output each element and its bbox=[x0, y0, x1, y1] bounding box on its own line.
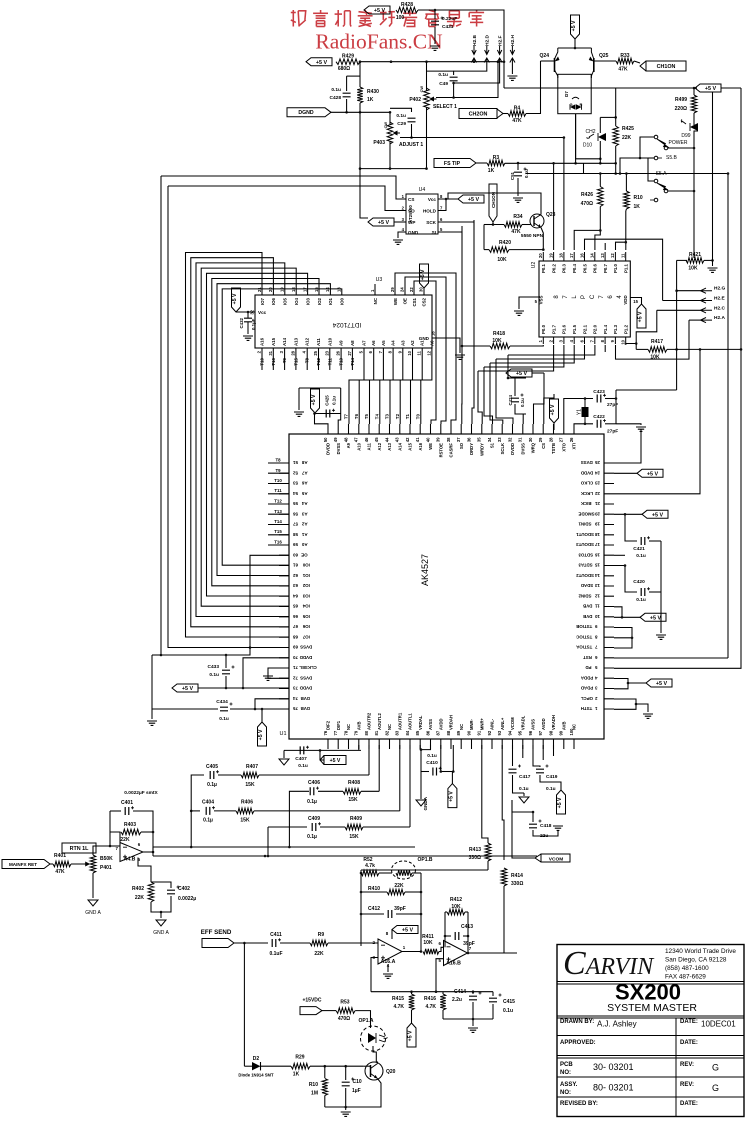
wire U2 P1.4 stub bbox=[604, 345, 606, 352]
wire bbox=[463, 935, 468, 937]
capacitor C428 bbox=[343, 93, 351, 97]
wire bbox=[345, 1107, 347, 1110]
svg-text:DATE:: DATE: bbox=[680, 1040, 698, 1046]
svg-text:DVDD: DVDD bbox=[510, 443, 515, 455]
wire H2.D bbox=[454, 62, 487, 71]
wire bbox=[523, 793, 525, 796]
svg-text:P0.2: P0.2 bbox=[551, 263, 556, 273]
svg-text:13: 13 bbox=[600, 253, 605, 258]
svg-text:AVDD: AVDD bbox=[541, 718, 546, 730]
svg-text:NC: NC bbox=[373, 297, 378, 304]
svg-text:CH2ON: CH2ON bbox=[469, 112, 488, 118]
wire fb right bbox=[420, 873, 422, 952]
svg-text:5550 NPN: 5550 NPN bbox=[521, 233, 544, 239]
svg-text:+15VDC: +15VDC bbox=[302, 998, 321, 1004]
ground at C414 bbox=[468, 1028, 478, 1032]
svg-text:+5 V: +5 V bbox=[448, 791, 454, 802]
svg-text:SO: SO bbox=[459, 442, 464, 449]
wire U4 CS left bbox=[161, 176, 406, 199]
svg-text:R430: R430 bbox=[367, 89, 379, 95]
svg-text:0.1u: 0.1u bbox=[331, 87, 341, 93]
svg-text:A2: A2 bbox=[410, 340, 415, 346]
capacitor C415 bbox=[489, 998, 497, 1002]
svg-text:T13: T13 bbox=[274, 509, 282, 514]
svg-text:SDOUT3: SDOUT3 bbox=[576, 542, 594, 547]
wire bbox=[359, 62, 361, 87]
svg-text:42: 42 bbox=[405, 437, 410, 442]
wire to right bus bbox=[616, 389, 677, 391]
svg-text:A8: A8 bbox=[301, 460, 307, 465]
svg-text:PD: PD bbox=[585, 665, 591, 670]
wire bbox=[141, 831, 153, 833]
wire to U1 DVB pin75 bbox=[230, 708, 289, 710]
wire U4 WP bbox=[394, 221, 406, 223]
resistor R410 bbox=[387, 889, 405, 895]
svg-text:10K: 10K bbox=[688, 266, 698, 272]
U3 address pin stub bbox=[340, 348, 342, 370]
+5V flag U1 pin24 bbox=[637, 469, 663, 477]
wire bbox=[152, 654, 161, 656]
svg-text:RadioFans.CN: RadioFans.CN bbox=[315, 30, 443, 54]
svg-text:A15: A15 bbox=[271, 337, 276, 346]
svg-text:R410: R410 bbox=[368, 886, 380, 892]
capacitor C409 bbox=[312, 823, 316, 831]
svg-text:C425: C425 bbox=[325, 395, 330, 406]
svg-text:55: 55 bbox=[293, 501, 298, 506]
svg-text:H2.C: H2.C bbox=[714, 305, 725, 311]
svg-text:DVDD: DVDD bbox=[581, 470, 593, 475]
wire U1 PD bbox=[614, 349, 741, 668]
svg-text:CH1ON: CH1ON bbox=[491, 191, 496, 208]
svg-text:SDOUT1: SDOUT1 bbox=[576, 532, 594, 537]
wire C29 top bbox=[390, 108, 412, 112]
wire U3 A7 to U1 bbox=[349, 348, 364, 424]
svg-text:PDDA: PDDA bbox=[580, 676, 593, 681]
wire bbox=[693, 88, 695, 95]
svg-text:VCOM: VCOM bbox=[510, 717, 515, 730]
resistor R9 bbox=[310, 940, 328, 946]
ground U1 pin1/2 bbox=[643, 714, 653, 718]
svg-text:R9: R9 bbox=[318, 932, 325, 938]
svg-text:GND A: GND A bbox=[85, 910, 101, 916]
svg-text:4: 4 bbox=[302, 350, 307, 353]
svg-text:REV:: REV: bbox=[680, 1062, 694, 1068]
wire U2 P0.3 to ADJUST1 bbox=[563, 138, 565, 251]
wire bbox=[324, 1096, 326, 1108]
svg-text:17: 17 bbox=[569, 253, 574, 258]
svg-text:7: 7 bbox=[563, 295, 569, 299]
wire S5.B left bbox=[640, 137, 654, 158]
svg-text:C411: C411 bbox=[270, 932, 282, 938]
capacitor C433 bbox=[222, 670, 230, 674]
svg-text:R415: R415 bbox=[392, 996, 404, 1002]
svg-text:17: 17 bbox=[594, 542, 599, 547]
capacitor C402 bbox=[167, 890, 175, 894]
svg-text:A10: A10 bbox=[356, 442, 361, 450]
svg-text:30: 30 bbox=[528, 437, 533, 442]
wire bbox=[636, 348, 648, 350]
wire U1 WRQ bbox=[534, 373, 545, 424]
svg-text:5: 5 bbox=[594, 665, 597, 670]
svg-text:6: 6 bbox=[579, 339, 584, 342]
svg-text:27pF: 27pF bbox=[607, 429, 618, 435]
wire H2.E row bbox=[663, 300, 701, 302]
resistor R413 bbox=[485, 843, 491, 861]
wire bbox=[712, 260, 714, 266]
LED D10 bbox=[598, 133, 606, 141]
wire S5.B to rail bbox=[668, 147, 694, 149]
wire A16.B out bbox=[468, 952, 518, 954]
ground at C431 bbox=[430, 46, 440, 50]
wire bbox=[677, 259, 687, 261]
wire U1 RST bbox=[614, 657, 728, 659]
svg-text:C: C bbox=[590, 294, 596, 299]
wire U1 MNR+ down bbox=[482, 745, 488, 843]
wire bbox=[512, 745, 514, 766]
svg-text:0.1u: 0.1u bbox=[503, 1008, 513, 1014]
wire U2 P1.6 bbox=[484, 345, 564, 367]
svg-text:RSTOE: RSTOE bbox=[438, 443, 443, 458]
net stub T10 bbox=[268, 483, 289, 485]
svg-text:470Ω: 470Ω bbox=[581, 201, 593, 207]
svg-text:P402: P402 bbox=[409, 97, 421, 103]
+5V flag R415 bbox=[407, 1023, 416, 1047]
wire bbox=[389, 112, 391, 125]
svg-text:15K: 15K bbox=[240, 818, 250, 824]
net stub T13 bbox=[268, 513, 289, 515]
wire U1 DVB pin74 bbox=[255, 699, 289, 709]
svg-text:5: 5 bbox=[440, 227, 443, 232]
wire bbox=[214, 810, 236, 812]
wire out rail 2 bbox=[153, 855, 537, 857]
net stub T14 bbox=[268, 524, 289, 526]
svg-text:44: 44 bbox=[384, 437, 389, 442]
svg-text:R412: R412 bbox=[450, 897, 462, 903]
svg-text:CS1: CS1 bbox=[412, 297, 417, 306]
svg-text:0.0022µ: 0.0022µ bbox=[178, 896, 196, 902]
svg-text:53: 53 bbox=[293, 481, 298, 486]
wire bbox=[443, 1018, 493, 1020]
svg-text:DVB: DVB bbox=[301, 696, 310, 701]
wire R4 to Q24 base bbox=[526, 61, 541, 114]
+5V flag at U3 Vcc bbox=[232, 288, 241, 312]
svg-text:XTO: XTO bbox=[561, 442, 566, 451]
svg-text:+5 V: +5 V bbox=[316, 60, 328, 66]
resistor R53 bbox=[336, 1008, 355, 1014]
+5V flag A16.A bbox=[392, 926, 418, 934]
svg-text:T9: T9 bbox=[275, 468, 281, 473]
wire feedback row bbox=[361, 869, 488, 871]
wire left rail x168 bbox=[168, 186, 250, 648]
svg-text:R53: R53 bbox=[340, 1000, 349, 1006]
svg-text:21: 21 bbox=[594, 501, 599, 506]
svg-text:Q23: Q23 bbox=[546, 212, 556, 218]
svg-text:15K: 15K bbox=[348, 797, 358, 803]
svg-text:P2.0: P2.0 bbox=[593, 324, 598, 334]
wire bbox=[467, 912, 469, 953]
wire XTO row to C423 bbox=[564, 399, 593, 425]
svg-text:PDAD: PDAD bbox=[581, 686, 593, 691]
svg-text:29: 29 bbox=[538, 437, 543, 442]
svg-text:T16: T16 bbox=[271, 357, 276, 365]
optocoupler OP1.B bbox=[392, 861, 416, 879]
svg-text:SCK: SCK bbox=[426, 220, 436, 225]
svg-text:A9: A9 bbox=[346, 442, 351, 448]
svg-text:+5 V: +5 V bbox=[232, 293, 238, 304]
svg-text:8: 8 bbox=[594, 635, 597, 640]
ground at C418 bbox=[553, 826, 563, 830]
svg-text:1: 1 bbox=[594, 706, 597, 711]
svg-text:P0.7: P0.7 bbox=[603, 263, 608, 273]
svg-text:15: 15 bbox=[594, 563, 599, 568]
svg-text:IO4: IO4 bbox=[302, 604, 310, 609]
svg-text:R413: R413 bbox=[469, 847, 481, 853]
switch S5.B bbox=[654, 135, 658, 139]
svg-text:DVDD: DVDD bbox=[300, 655, 312, 660]
wire D10 top bbox=[599, 117, 601, 133]
OP1.A LED bbox=[368, 1033, 376, 1043]
svg-text:DRDY: DRDY bbox=[469, 443, 474, 455]
svg-text:Vcc: Vcc bbox=[428, 197, 437, 202]
resistor R52 bbox=[361, 870, 379, 876]
wire bbox=[517, 163, 519, 170]
capacitor C424 bbox=[511, 398, 519, 402]
svg-text:P: P bbox=[581, 295, 587, 299]
svg-text:47K: 47K bbox=[512, 118, 522, 124]
net stub T16 bbox=[268, 544, 289, 546]
svg-text:L: L bbox=[572, 295, 578, 299]
svg-text:DVSS: DVSS bbox=[300, 676, 312, 681]
svg-text:NC: NC bbox=[459, 724, 464, 730]
wire out rail 1 bbox=[153, 846, 415, 848]
svg-text:XTI: XTI bbox=[572, 443, 577, 450]
capacitor C418 bbox=[529, 824, 537, 828]
wire U1 AVSS pin86 bbox=[421, 745, 431, 772]
svg-text:T11: T11 bbox=[274, 488, 282, 493]
svg-text:0.1µF: 0.1µF bbox=[251, 318, 256, 330]
svg-text:47K: 47K bbox=[55, 869, 65, 875]
svg-text:H2.H: H2.H bbox=[510, 35, 516, 46]
svg-text:IDT71024: IDT71024 bbox=[332, 321, 361, 328]
svg-text:8: 8 bbox=[554, 295, 560, 299]
ground at C51 bbox=[513, 198, 523, 202]
wire row2 left bbox=[289, 791, 309, 847]
capacitor C411 bbox=[272, 939, 276, 947]
wire bbox=[614, 607, 622, 618]
+5V flag mid bbox=[550, 399, 559, 423]
wire bbox=[247, 322, 249, 334]
svg-text:58: 58 bbox=[293, 532, 298, 537]
svg-text:22K: 22K bbox=[135, 895, 145, 901]
wire to U1 DVDD bbox=[496, 359, 513, 424]
svg-text:25: 25 bbox=[594, 460, 599, 465]
svg-text:G: G bbox=[712, 1083, 719, 1093]
svg-text:AOUTL2: AOUTL2 bbox=[377, 713, 382, 730]
wire C428 top bbox=[347, 75, 360, 77]
svg-text:50: 50 bbox=[323, 437, 328, 442]
title block outer frame bbox=[557, 945, 744, 1117]
svg-text:ASSY.: ASSY. bbox=[560, 1082, 578, 1088]
svg-text:CS: CS bbox=[408, 197, 414, 202]
svg-text:Diode 1N914 SMT: Diode 1N914 SMT bbox=[238, 1073, 274, 1078]
svg-text:OE: OE bbox=[301, 553, 307, 558]
svg-text:2: 2 bbox=[257, 350, 262, 353]
wire C434 row bbox=[152, 708, 218, 710]
wire bbox=[614, 637, 632, 639]
svg-text:680Ω: 680Ω bbox=[338, 66, 350, 72]
svg-text:A8: A8 bbox=[350, 340, 355, 346]
svg-text:4.7K: 4.7K bbox=[393, 1004, 404, 1010]
svg-text:0.1u: 0.1u bbox=[332, 396, 337, 405]
wire stub bbox=[553, 745, 555, 756]
svg-text:+5 V: +5 V bbox=[374, 8, 386, 14]
svg-text:IO3: IO3 bbox=[302, 594, 310, 599]
capacitor C417 bbox=[509, 769, 517, 773]
svg-text:65: 65 bbox=[293, 604, 298, 609]
wire D10 bottom bbox=[599, 141, 601, 163]
svg-text:8: 8 bbox=[600, 339, 605, 342]
svg-text:27pF: 27pF bbox=[607, 402, 618, 408]
IC U3 body (IDT71024 SRAM) bbox=[255, 295, 432, 348]
U3 address pin stub bbox=[284, 348, 286, 370]
svg-text:AOUTL1: AOUTL1 bbox=[408, 713, 413, 730]
svg-text:H2.A: H2.A bbox=[714, 315, 725, 321]
svg-text:T4: T4 bbox=[374, 413, 379, 419]
svg-text:CLKO: CLKO bbox=[580, 481, 593, 486]
U3 CS2 stub bbox=[423, 288, 425, 295]
wire to U1 pin50 bbox=[315, 414, 329, 425]
wire OP1.A to Q20 bbox=[373, 1046, 376, 1062]
svg-text:C413: C413 bbox=[461, 924, 473, 930]
wire S5 to bus bbox=[620, 158, 648, 174]
wire A16.B plus bbox=[436, 959, 444, 992]
svg-text:DATE:: DATE: bbox=[680, 1101, 698, 1107]
wire bbox=[693, 113, 695, 125]
wire U1 AVB pin79 bbox=[358, 745, 360, 750]
svg-text:C404: C404 bbox=[202, 800, 214, 806]
svg-text:P1.1: P1.1 bbox=[624, 263, 629, 273]
svg-text:+5 V: +5 V bbox=[557, 797, 563, 808]
svg-text:A13: A13 bbox=[293, 337, 298, 346]
svg-text:0.22uF: 0.22uF bbox=[442, 16, 457, 22]
wire U3 A3 to U1 bbox=[390, 348, 403, 424]
svg-text:P1.4: P1.4 bbox=[603, 324, 608, 334]
svg-text:18: 18 bbox=[594, 532, 599, 537]
svg-text:AINL+: AINL+ bbox=[500, 717, 505, 730]
wire U1 pins71-72 bbox=[268, 668, 289, 678]
svg-text:T5: T5 bbox=[364, 413, 369, 419]
wire U4 SCK to U1 DRDY bbox=[472, 220, 474, 424]
+5V flag U1 DVDD top bbox=[311, 389, 320, 413]
svg-text:T1: T1 bbox=[405, 413, 410, 419]
wire to U1 WRDY bbox=[478, 371, 482, 424]
svg-text:A13: A13 bbox=[387, 442, 392, 450]
svg-text:A0: A0 bbox=[429, 340, 434, 346]
wire bbox=[513, 775, 525, 793]
ground at U4 bbox=[393, 240, 403, 244]
wire bbox=[540, 775, 561, 790]
ground at H2.H bbox=[507, 76, 517, 80]
svg-text:IO4: IO4 bbox=[294, 297, 299, 305]
svg-text:TSTIOA: TSTIOA bbox=[575, 645, 592, 650]
resistor R416 bbox=[440, 994, 446, 1010]
wire U1 DVDD pin70 bbox=[243, 658, 289, 688]
wire bbox=[411, 992, 413, 994]
wire bbox=[649, 591, 661, 593]
svg-text:22K: 22K bbox=[120, 837, 130, 843]
svg-text:+5 V: +5 V bbox=[638, 311, 644, 322]
svg-text:T13: T13 bbox=[339, 357, 344, 365]
svg-text:R417: R417 bbox=[651, 339, 663, 345]
LED D99 bbox=[690, 123, 698, 131]
resistor R3 bbox=[487, 160, 505, 166]
wire U1 DVSS to C424 bbox=[523, 414, 526, 424]
wire Q20 emitter bbox=[325, 1079, 381, 1108]
wire U1 VRDAL pin85 bbox=[419, 745, 421, 750]
svg-text:1M: 1M bbox=[311, 1091, 318, 1097]
wire U1 AINL+ down bbox=[502, 745, 504, 840]
svg-text:BICK: BICK bbox=[580, 501, 592, 506]
svg-text:39pF: 39pF bbox=[463, 941, 475, 947]
wire U3 OE to U1 bbox=[405, 277, 446, 424]
svg-text:47K: 47K bbox=[618, 67, 628, 73]
svg-text:6: 6 bbox=[594, 655, 597, 660]
svg-text:A2: A2 bbox=[301, 522, 307, 527]
svg-text:7: 7 bbox=[590, 339, 595, 342]
svg-text:11: 11 bbox=[417, 350, 422, 355]
svg-text:66: 66 bbox=[293, 614, 298, 619]
svg-text:VDD: VDD bbox=[623, 295, 628, 304]
wire bbox=[234, 942, 268, 944]
svg-text:51: 51 bbox=[293, 460, 298, 465]
svg-text:+5 V: +5 V bbox=[647, 471, 659, 477]
ground at U1 pin71 bbox=[263, 676, 273, 680]
svg-text:1K: 1K bbox=[367, 97, 374, 103]
watermark line 1 (CJK) bbox=[291, 10, 484, 27]
wire bbox=[198, 687, 226, 689]
wire bbox=[322, 1010, 336, 1012]
wire bias row bbox=[371, 991, 493, 993]
wire P401 top bbox=[93, 846, 110, 855]
svg-text:69: 69 bbox=[293, 645, 298, 650]
wire Q20 collector bbox=[376, 1062, 377, 1064]
wire U2 P0.2 to R3 bbox=[553, 163, 555, 250]
resistor R411 bbox=[423, 949, 439, 955]
net flag +15VDC bbox=[300, 1007, 322, 1015]
IC U1 pin stubs bbox=[279, 424, 614, 749]
wire H2.H bbox=[511, 62, 513, 74]
svg-text:56: 56 bbox=[293, 512, 298, 517]
potentiometer P402 bbox=[424, 88, 430, 110]
wire bbox=[704, 259, 713, 261]
switch S5.B open contact bbox=[654, 156, 658, 160]
svg-text:A6: A6 bbox=[371, 340, 376, 346]
svg-text:1: 1 bbox=[402, 194, 405, 199]
svg-text:19: 19 bbox=[594, 522, 599, 527]
svg-text:R406: R406 bbox=[241, 800, 253, 806]
svg-text:POWER: POWER bbox=[669, 140, 688, 146]
svg-text:3: 3 bbox=[402, 217, 405, 222]
wire feedback left bbox=[109, 811, 111, 846]
potentiometer P403 bbox=[387, 122, 393, 144]
svg-text:C434: C434 bbox=[216, 699, 228, 705]
wire bbox=[484, 249, 489, 251]
svg-text:6: 6 bbox=[608, 295, 614, 299]
wire U1 AOUTR2 drop bbox=[368, 745, 370, 775]
svg-text:C412: C412 bbox=[368, 906, 380, 912]
wire Q23 collector bbox=[448, 193, 541, 215]
svg-text:19: 19 bbox=[548, 253, 553, 258]
